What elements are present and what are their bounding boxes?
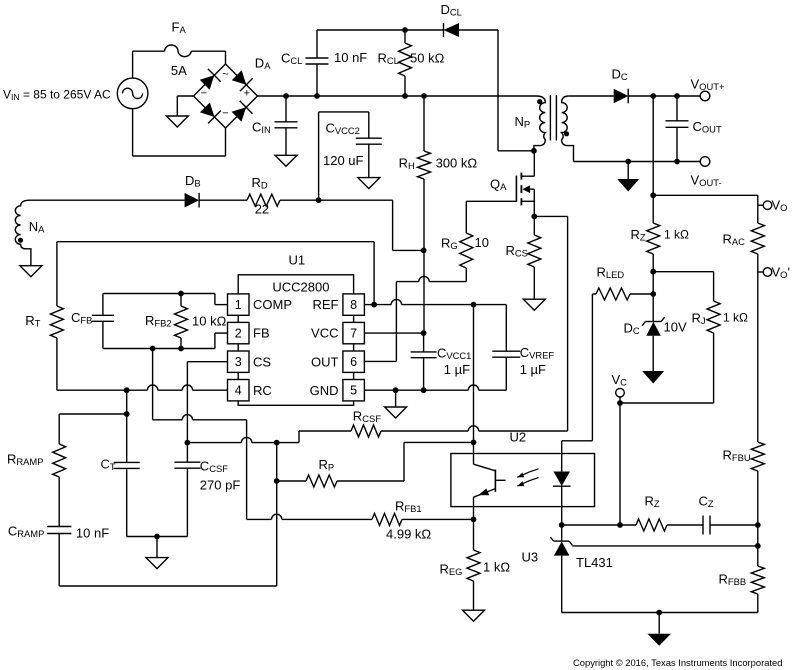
- svg-text:7: 7: [350, 327, 357, 341]
- svg-text:10V: 10V: [664, 320, 687, 335]
- svg-text:CS: CS: [253, 354, 271, 369]
- svg-text:10 kΩ: 10 kΩ: [192, 314, 227, 329]
- svg-text:OUT: OUT: [311, 354, 339, 369]
- svg-text:22: 22: [255, 202, 269, 217]
- svg-text:UCC2800: UCC2800: [272, 280, 329, 295]
- svg-text:−: −: [222, 108, 228, 120]
- svg-text:Copyright © 2016, Texas Instru: Copyright © 2016, Texas Instruments Inco…: [573, 657, 782, 668]
- svg-text:6: 6: [350, 355, 357, 369]
- svg-text:VIN = 85 to 265V AC: VIN = 85 to 265V AC: [3, 88, 111, 103]
- svg-text:50 kΩ: 50 kΩ: [410, 51, 445, 66]
- svg-text:FB: FB: [253, 326, 270, 341]
- svg-text:TL431: TL431: [576, 555, 613, 570]
- svg-text:1 µF: 1 µF: [520, 362, 546, 377]
- svg-text:120 uF: 120 uF: [323, 153, 364, 168]
- svg-text:2: 2: [235, 327, 242, 341]
- svg-text:1 kΩ: 1 kΩ: [664, 228, 689, 242]
- svg-text:U3: U3: [522, 550, 539, 565]
- svg-text:270 pF: 270 pF: [200, 478, 241, 493]
- svg-text:3: 3: [235, 355, 242, 369]
- svg-text:300 kΩ: 300 kΩ: [436, 156, 478, 171]
- svg-text:8: 8: [350, 298, 357, 312]
- svg-text:4.99 kΩ: 4.99 kΩ: [386, 527, 431, 542]
- svg-text:1: 1: [235, 298, 242, 312]
- svg-text:1 kΩ: 1 kΩ: [723, 311, 748, 325]
- svg-text:RC: RC: [253, 383, 272, 398]
- svg-text:~: ~: [222, 69, 228, 81]
- svg-text:VCC: VCC: [311, 326, 338, 341]
- svg-text:10 nF: 10 nF: [76, 526, 109, 541]
- svg-text:5A: 5A: [171, 63, 187, 78]
- svg-text:REF: REF: [313, 297, 339, 312]
- svg-text:5: 5: [350, 384, 357, 398]
- svg-text:−: −: [201, 87, 207, 99]
- svg-text:U2: U2: [510, 430, 527, 445]
- svg-text:COMP: COMP: [253, 297, 292, 312]
- svg-text:1 µF: 1 µF: [444, 362, 470, 377]
- svg-text:10 nF: 10 nF: [334, 50, 367, 65]
- svg-text:U1: U1: [289, 253, 306, 268]
- svg-text:GND: GND: [310, 383, 339, 398]
- svg-text:10: 10: [475, 235, 489, 250]
- svg-text:4: 4: [235, 384, 242, 398]
- svg-text:1 kΩ: 1 kΩ: [483, 560, 510, 575]
- svg-text:+: +: [244, 87, 250, 99]
